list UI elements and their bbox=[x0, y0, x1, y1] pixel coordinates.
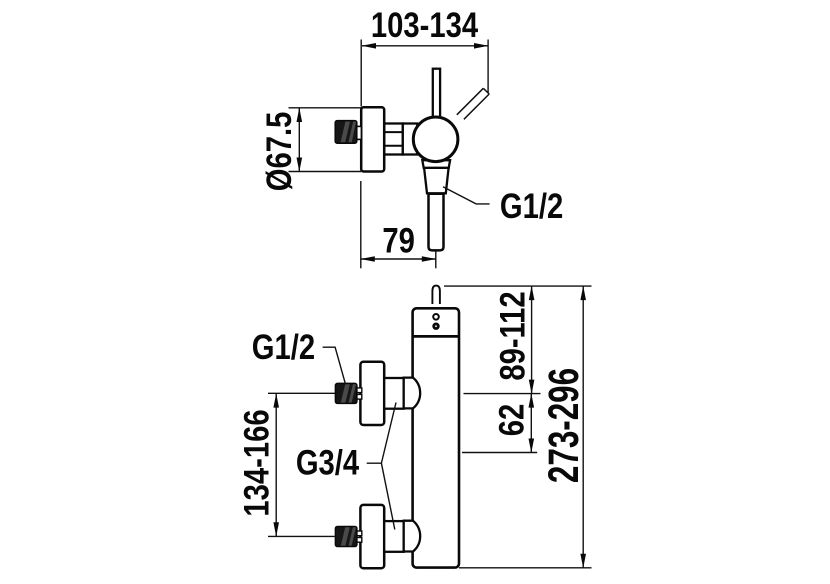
wire: top extension line bbox=[444, 285, 592, 287]
handle lever (diagonal) bbox=[457, 88, 489, 119]
dimension line 103-134 bbox=[362, 43, 489, 49]
dimension line 273-296 bbox=[580, 286, 586, 569]
svg-text:134-166: 134-166 bbox=[237, 409, 276, 516]
svg-text:103-134: 103-134 bbox=[371, 6, 478, 45]
dimension line 79 bbox=[360, 256, 436, 262]
label G3/4 bbox=[296, 443, 359, 482]
upper hex nut (hatched) bbox=[335, 383, 361, 403]
wire: upper inlet centerline left bbox=[268, 392, 335, 394]
lower connector G3/4 bbox=[384, 521, 404, 552]
upper flange bbox=[360, 362, 384, 425]
svg-text:89-112: 89-112 bbox=[493, 291, 532, 380]
wire: bottom extension line bbox=[459, 567, 592, 569]
lower flange bbox=[360, 505, 384, 568]
dimension line diameter 67.5 bbox=[297, 108, 303, 172]
handle rod (top view) bbox=[433, 69, 440, 121]
wire: lower inlet centerline left bbox=[268, 535, 335, 537]
supply hex nut (hatched) bbox=[335, 121, 361, 144]
label G1/2 (front view) bbox=[252, 328, 315, 367]
indicator dot upper (open) bbox=[433, 314, 439, 320]
wire: bottom extension of diameter 67.5 bbox=[289, 171, 362, 173]
label 103-134 bbox=[371, 6, 478, 45]
upper connector G3/4 bbox=[384, 378, 404, 409]
wire: 62 lower extension bbox=[462, 452, 537, 454]
svg-text:273-296: 273-296 bbox=[539, 368, 587, 483]
dimension line 134-166 bbox=[273, 393, 279, 537]
leader line G1/2 (front view) bbox=[323, 347, 346, 384]
wire: right extension line of 103-134 bbox=[487, 40, 489, 94]
wire: top extension of diameter 67.5 bbox=[289, 107, 362, 109]
svg-text:G1/2: G1/2 bbox=[252, 328, 315, 367]
spout tube with rounded cap bbox=[429, 194, 444, 251]
dimension line 62 bbox=[529, 393, 535, 453]
body separator line bbox=[413, 335, 459, 338]
adapter between union and ball bbox=[403, 124, 418, 155]
wire: left extension line upper segment bbox=[360, 40, 362, 107]
label 273-296 (rotated) bbox=[539, 368, 587, 483]
lower inlet dome bbox=[404, 521, 420, 552]
wire: center tick inside body bbox=[425, 452, 445, 454]
wire: right extension of 79 (spout axis) bbox=[435, 238, 437, 269]
pin on top of body bbox=[432, 286, 440, 304]
indicator dot lower (filled) bbox=[432, 323, 439, 330]
spout collar bbox=[422, 160, 450, 168]
valve ball body bbox=[413, 117, 458, 162]
leader line G1/2 (top view) bbox=[443, 187, 490, 204]
main body cylinder bbox=[413, 308, 459, 567]
label G1/2 (top view) bbox=[500, 186, 563, 225]
label 62 (rotated) bbox=[492, 404, 531, 437]
svg-text:79: 79 bbox=[382, 221, 415, 260]
wall flange (side view) bbox=[361, 107, 384, 171]
upper inlet dome bbox=[404, 378, 420, 409]
svg-text:G1/2: G1/2 bbox=[500, 186, 563, 225]
spout taper bbox=[424, 168, 449, 193]
svg-text:Ø67.5: Ø67.5 bbox=[259, 112, 298, 192]
label diameter 67.5 (rotated) bbox=[259, 112, 298, 192]
svg-text:62: 62 bbox=[492, 404, 531, 437]
label 134-166 (rotated) bbox=[237, 409, 276, 516]
wire: upper inlet centerline right bbox=[464, 393, 541, 395]
label 89-112 (rotated) bbox=[493, 291, 532, 380]
wire: left extension line lower segment bbox=[360, 181, 362, 268]
union nut between flange and body bbox=[384, 124, 403, 155]
label 79 bbox=[382, 221, 415, 260]
svg-text:G3/4: G3/4 bbox=[296, 443, 359, 482]
dimension line 89-112 bbox=[529, 286, 535, 394]
lower hex nut (hatched) bbox=[335, 527, 361, 547]
leader lines G3/4 bbox=[367, 403, 396, 530]
